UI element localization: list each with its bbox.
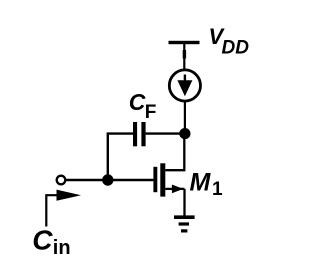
label CF	[129, 89, 157, 123]
ground	[174, 215, 195, 232]
svg-text:in: in	[53, 237, 71, 259]
wire current source to drain node	[184, 101, 186, 134]
svg-text:DD: DD	[222, 38, 250, 59]
svg-text:C: C	[129, 89, 146, 115]
wire input to gate	[66, 179, 153, 181]
svg-text:M: M	[190, 169, 212, 197]
wire drain node to capacitor	[146, 132, 185, 134]
node gate junction	[102, 174, 113, 185]
transistor M1	[153, 134, 184, 216]
Cin annotation arrow	[46, 190, 81, 227]
svg-text:C: C	[32, 225, 53, 256]
VDD rail	[169, 41, 200, 71]
svg-text:F: F	[145, 102, 157, 123]
wire capacitor to gate node	[108, 134, 133, 180]
label VDD	[209, 24, 250, 59]
capacitor CF	[133, 122, 146, 146]
current source I1	[169, 70, 200, 101]
node drain junction	[179, 128, 190, 139]
svg-text:1: 1	[212, 179, 223, 200]
label M1	[190, 169, 224, 200]
label Cin	[32, 225, 70, 259]
input terminal	[57, 176, 66, 185]
